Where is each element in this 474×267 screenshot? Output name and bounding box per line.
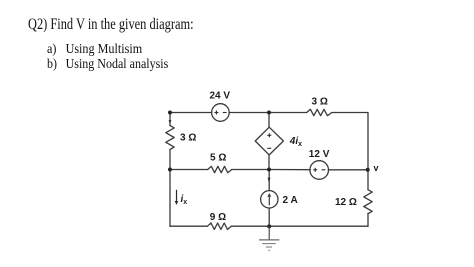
small arrowhead on 2A branch below middle node (268, 178, 271, 183)
svg-text:3 Ω: 3 Ω (180, 133, 196, 144)
node dot top-left (168, 111, 172, 115)
wire bottom-right corner to 9 ohm resistor (231, 225, 368, 227)
wire 24V source to top-middle node (229, 112, 269, 114)
resistor 3 ohm (top) (307, 109, 332, 115)
wire node v down to 12 ohm resistor (367, 170, 369, 190)
node dot top-middle (267, 111, 271, 115)
polarity marks diamond (267, 133, 271, 148)
svg-text:5 Ω: 5 Ω (210, 153, 226, 164)
question title (28, 16, 194, 34)
wire 9 ohm resistor to bottom-left corner (170, 225, 207, 227)
polarity marks 12V (313, 168, 325, 172)
node dot ground (267, 224, 271, 228)
node dot v (366, 168, 370, 172)
wire resistor 3ohm to top-right corner (332, 112, 368, 114)
2A source arrow (267, 193, 271, 205)
wire 5 ohm to middle node (232, 169, 269, 171)
voltage source 12V circle (310, 161, 329, 180)
wire 12V source to node v (328, 169, 368, 171)
current source 2A circle (261, 191, 278, 208)
wire middle node down to 2A source (268, 170, 270, 191)
item b (47, 56, 168, 72)
svg-text:12 Ω: 12 Ω (335, 197, 357, 208)
node dot middle-left (168, 168, 172, 172)
svg-text:4ix: 4ix (289, 136, 302, 148)
wire middle node to 12V source (269, 169, 310, 171)
wire diamond to middle node (268, 155, 270, 170)
wire middle row: left node to 5 ohm (170, 169, 208, 171)
svg-text:24 V: 24 V (210, 91, 231, 102)
svg-text:ix: ix (181, 194, 188, 206)
svg-text:9 Ω: 9 Ω (210, 212, 226, 223)
wire 2A source to ground node (268, 208, 270, 226)
dependent source diamond 4ix (255, 127, 283, 155)
svg-text:3 Ω: 3 Ω (312, 97, 328, 108)
resistor 12 ohm (right) (364, 190, 372, 214)
wire right side top-right corner down to node v (367, 113, 369, 170)
voltage source 24V circle (212, 104, 230, 122)
wire bottom-left corner up to middle-left node (169, 170, 171, 227)
item a (47, 41, 142, 57)
ix current arrow (175, 190, 179, 205)
svg-text:2 A: 2 A (283, 195, 298, 206)
wire 12 ohm resistor to bottom-right corner (367, 213, 369, 226)
resistor 3 ohm (left) (166, 126, 174, 150)
small arrowhead on left branch below top-left node (169, 120, 172, 124)
resistor 5 ohm (middle) (208, 166, 232, 172)
svg-text:v: v (374, 163, 379, 173)
wire top-middle node to resistor 3ohm top (269, 112, 307, 114)
svg-text:12 V: 12 V (309, 149, 330, 160)
wire top-left to 24V source (170, 112, 212, 114)
node dot middle-center (267, 168, 271, 172)
resistor 9 ohm (bottom) (207, 223, 231, 229)
wire resistor 3ohm left to top-left node (169, 113, 171, 126)
polarity marks 24V (214, 111, 226, 115)
ground symbol (259, 226, 279, 250)
wire middle-left node to resistor 3ohm left (169, 150, 171, 170)
wire top-middle node to diamond source (268, 113, 270, 128)
